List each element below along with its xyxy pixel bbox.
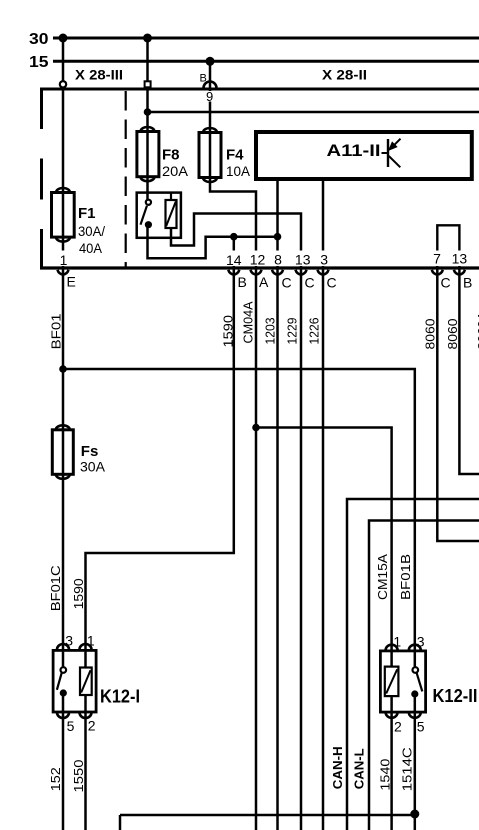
svg-text:2: 2 — [394, 719, 402, 735]
svg-text:3: 3 — [417, 634, 425, 650]
svg-text:F4: F4 — [226, 147, 244, 164]
svg-text:1: 1 — [87, 633, 95, 649]
svg-text:30A/: 30A/ — [78, 223, 105, 239]
svg-text:7: 7 — [433, 251, 441, 267]
svg-text:1540: 1540 — [378, 759, 393, 791]
svg-text:K12-I: K12-I — [100, 687, 140, 707]
svg-text:B: B — [463, 275, 472, 291]
svg-text:5: 5 — [67, 718, 75, 734]
svg-text:C: C — [327, 275, 337, 291]
svg-text:F1: F1 — [78, 205, 96, 222]
svg-text:1226: 1226 — [307, 318, 322, 345]
svg-text:CM04A: CM04A — [241, 301, 256, 343]
svg-text:40A: 40A — [79, 240, 103, 256]
svg-text:1: 1 — [393, 634, 401, 650]
svg-text:9: 9 — [206, 89, 213, 104]
svg-text:B: B — [238, 274, 247, 290]
svg-text:12: 12 — [250, 252, 266, 268]
svg-text:X 28-III: X 28-III — [75, 67, 123, 83]
svg-text:K12-II: K12-II — [433, 686, 478, 706]
svg-text:B: B — [200, 73, 207, 85]
svg-text:13: 13 — [452, 251, 468, 267]
svg-text:5: 5 — [417, 719, 425, 735]
svg-text:C: C — [305, 275, 315, 291]
svg-text:1590: 1590 — [71, 578, 86, 609]
svg-text:C: C — [282, 275, 292, 291]
svg-text:8060A: 8060A — [475, 311, 479, 349]
svg-text:A: A — [259, 274, 269, 290]
svg-text:1: 1 — [60, 252, 68, 268]
svg-text:3: 3 — [320, 252, 328, 268]
svg-text:Fs: Fs — [81, 443, 99, 460]
svg-text:1514C: 1514C — [399, 747, 414, 791]
svg-text:14: 14 — [226, 252, 242, 268]
svg-text:CAN-L: CAN-L — [352, 748, 367, 789]
svg-text:8: 8 — [274, 252, 282, 268]
svg-text:1203: 1203 — [263, 318, 278, 345]
svg-text:30A: 30A — [80, 459, 106, 475]
svg-text:15: 15 — [29, 54, 49, 71]
svg-text:A11-II: A11-II — [327, 141, 381, 160]
svg-text:CAN-H: CAN-H — [330, 746, 345, 789]
svg-text:C: C — [441, 275, 451, 291]
svg-text:20A: 20A — [162, 163, 189, 179]
svg-text:CM15A: CM15A — [375, 554, 390, 600]
svg-text:BF01C: BF01C — [48, 565, 63, 611]
svg-text:BF01: BF01 — [49, 313, 64, 349]
svg-text:1550: 1550 — [71, 760, 86, 793]
svg-text:8060: 8060 — [423, 319, 438, 350]
svg-text:E: E — [67, 274, 76, 290]
svg-text:1229: 1229 — [285, 318, 300, 345]
svg-text:3: 3 — [65, 633, 73, 649]
svg-text:30: 30 — [29, 31, 49, 48]
svg-text:F8: F8 — [162, 147, 180, 164]
svg-text:2: 2 — [88, 718, 96, 734]
svg-text:1590: 1590 — [221, 315, 236, 348]
svg-text:8060: 8060 — [445, 319, 460, 350]
svg-text:X 28-II: X 28-II — [322, 67, 367, 83]
svg-text:10A: 10A — [226, 163, 251, 179]
svg-text:152: 152 — [48, 767, 63, 791]
svg-text:13: 13 — [295, 252, 311, 268]
svg-text:BF01B: BF01B — [398, 554, 413, 600]
